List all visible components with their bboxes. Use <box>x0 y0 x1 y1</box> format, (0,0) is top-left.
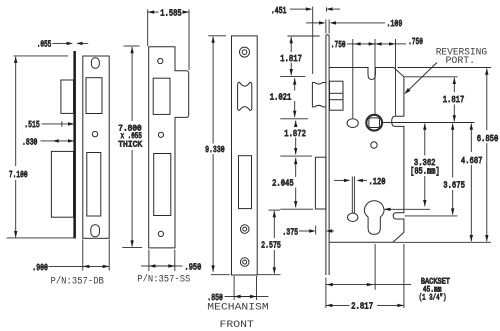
hub (square follower) <box>366 115 382 131</box>
svg-text:.750: .750 <box>408 37 423 47</box>
dim 1.585 <box>148 9 189 70</box>
dim 2.817 <box>326 244 404 312</box>
backset centreline <box>374 244 376 290</box>
svg-text:.055: .055 <box>37 40 52 50</box>
view4 faceplate edge-on <box>326 35 329 275</box>
view4 latch guide box <box>330 81 344 110</box>
svg-text:1.585: 1.585 <box>160 9 181 19</box>
view1 latch bolt <box>61 80 74 113</box>
view3 mechanism front plate <box>232 36 258 275</box>
dim .750 pair <box>331 37 423 119</box>
svg-text:.109: .109 <box>387 19 403 29</box>
dim .830 <box>22 137 75 147</box>
svg-text:.451: .451 <box>271 6 287 16</box>
svg-text:[85.mm]: [85.mm] <box>410 167 440 177</box>
REVERSING PORT leader <box>404 48 487 95</box>
oval3 slot end <box>348 213 358 221</box>
svg-text:4.687: 4.687 <box>461 156 483 166</box>
svg-text:P/N:357-DB: P/N:357-DB <box>51 276 104 288</box>
view4 case outline <box>329 68 404 243</box>
dim .055 <box>37 40 88 50</box>
view2 screw hole mid <box>158 132 163 137</box>
view3 screw hole top (double) <box>240 47 250 57</box>
svg-text:1.817: 1.817 <box>443 95 465 105</box>
svg-text:P/N:357-SS: P/N:357-SS <box>137 273 190 285</box>
view3 boss circle 2 (double) <box>240 258 249 267</box>
dim 6.850 <box>393 68 498 243</box>
view2 deadbolt opening <box>154 154 171 216</box>
dim 2.575 <box>257 210 281 275</box>
svg-text:.120: .120 <box>369 177 386 187</box>
view2 screw hole bottom <box>158 231 163 236</box>
view3 boss circle 1 (double) <box>240 225 249 234</box>
svg-text:6.850: 6.850 <box>477 134 499 144</box>
svg-text:2.575: 2.575 <box>261 241 281 251</box>
view3 deadbolt cutout <box>239 156 252 209</box>
view1 lock case body <box>83 56 109 238</box>
dim .109 <box>306 19 402 34</box>
dim .900 <box>32 240 109 273</box>
dim .451 <box>271 6 340 74</box>
svg-text:FRONT: FRONT <box>220 319 254 331</box>
dim 1.872 <box>280 121 312 157</box>
svg-text:1.817: 1.817 <box>280 54 302 64</box>
dim 1.817 right <box>404 77 464 122</box>
svg-text:.900: .900 <box>32 263 48 273</box>
svg-text:2.817: 2.817 <box>351 302 373 312</box>
dim 3.362 [85.mm] <box>384 123 440 211</box>
dim 1.817 left <box>280 36 319 76</box>
view1 faceplate edge (thick) <box>73 51 76 238</box>
view4 latch bolt (with concave face arcs) <box>312 83 326 107</box>
svg-text:7.100: 7.100 <box>9 170 28 180</box>
view1 mid circle <box>92 131 97 136</box>
dim .375 <box>282 226 334 238</box>
view1 top obround hole <box>91 58 99 68</box>
dim 2.045 <box>272 158 313 210</box>
svg-text:2.045: 2.045 <box>272 179 294 189</box>
hub centre extension line (right) <box>382 122 475 124</box>
view2 screw hole top <box>158 58 163 63</box>
svg-text:1.021: 1.021 <box>270 93 292 103</box>
dim 3.675 <box>405 123 465 216</box>
dim 1.021 <box>270 78 308 119</box>
dim .850 <box>207 276 268 303</box>
dim .515 <box>24 120 74 130</box>
dim 7.100 <box>7 56 76 238</box>
view1 deadbolt window <box>87 153 101 217</box>
svg-text:.830: .830 <box>22 137 37 147</box>
svg-text:THICK: THICK <box>118 139 143 149</box>
dim 9.330 <box>205 36 230 275</box>
svg-text:.750: .750 <box>331 40 346 50</box>
backset 45mm dim <box>326 277 450 303</box>
dim 7.800 x .055 THICK <box>118 46 143 247</box>
view1 latch window <box>86 78 102 114</box>
svg-text:PORT.: PORT. <box>446 56 476 67</box>
svg-text:(1 3/4"): (1 3/4") <box>419 293 447 303</box>
svg-text:.950: .950 <box>185 263 202 273</box>
dim 4.687 <box>461 123 483 241</box>
view2 latch opening <box>153 78 170 114</box>
svg-text:.515: .515 <box>24 120 39 130</box>
view1 bottom obround <box>91 225 100 237</box>
view4 deadbolt <box>315 157 326 209</box>
svg-text:3.675: 3.675 <box>443 181 465 191</box>
view2 strike plate outline with lip <box>149 47 189 248</box>
view3 latch spool cutout <box>238 82 252 110</box>
dim .950 <box>141 250 201 273</box>
svg-text:1.872: 1.872 <box>284 129 306 139</box>
view1 deadbolt <box>51 151 73 217</box>
svg-text:.375: .375 <box>282 228 298 238</box>
svg-text:MECHANISM: MECHANISM <box>207 302 268 314</box>
euro cylinder keyhole <box>364 201 384 235</box>
oval1 mount hole <box>347 119 358 128</box>
circle below hub <box>371 142 377 148</box>
dim .120 slot <box>334 177 386 214</box>
svg-text:9.330: 9.330 <box>205 145 225 155</box>
